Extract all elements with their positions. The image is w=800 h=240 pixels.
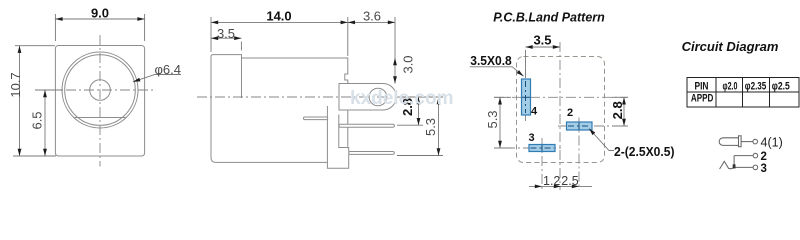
svg-text:2: 2 [761, 151, 767, 163]
circuit switch stem [733, 156, 735, 169]
pad2 center tick [578, 118, 580, 191]
svg-text:5.3: 5.3 [485, 110, 500, 128]
pad 4 [522, 79, 531, 115]
side view centerline [197, 96, 443, 98]
land pattern outline (dashed) [517, 57, 605, 163]
svg-text:5.3: 5.3 [423, 118, 438, 136]
svg-text:2.5: 2.5 [561, 174, 578, 188]
side view terminal foot [327, 106, 348, 168]
pad3 cross tick [541, 145, 543, 151]
front view body [55, 46, 144, 157]
dimension 5.3 (pattern) [485, 97, 512, 148]
front view chord [74, 117, 126, 119]
svg-text:4: 4 [531, 106, 538, 118]
svg-text:PIN: PIN [695, 80, 709, 92]
pad2 centerline [558, 125, 628, 127]
dimension 3.0 [393, 55, 415, 83]
dimension 5.3 (side) [397, 97, 443, 156]
pin table [687, 78, 799, 108]
label phi 6.4 with leader [132, 62, 181, 84]
front view center pin circle [90, 80, 111, 101]
svg-text:2: 2 [567, 107, 573, 119]
svg-text:kxdele.com: kxdele.com [350, 88, 454, 109]
dimension 6.5 [30, 90, 64, 156]
svg-text:P.C.B.Land Pattern: P.C.B.Land Pattern [493, 11, 605, 25]
svg-text:APPD: APPD [691, 93, 714, 105]
side view internal edge [241, 55, 243, 98]
pad2 cross tick [578, 123, 580, 130]
dimension 3.5 (pattern) [526, 33, 561, 79]
side view body [211, 55, 348, 163]
svg-text:3: 3 [761, 163, 767, 175]
dimension 14.0 [211, 9, 348, 57]
dimension 9.0 [55, 6, 144, 42]
side view pin 3 tail [304, 117, 328, 120]
pad3 centerline [505, 147, 561, 149]
pattern horizontal centerline [494, 96, 628, 98]
dimension 10.7 [8, 46, 56, 156]
svg-text:φ2.0: φ2.0 [723, 81, 738, 93]
label 2-(2.5X0.5) with leader [588, 127, 675, 159]
svg-text:14.0: 14.0 [266, 9, 291, 24]
circuit spring contact [720, 161, 735, 169]
pad3 center tick [541, 138, 543, 190]
terminal 2 circle [753, 153, 758, 158]
svg-text:9.0: 9.0 [91, 6, 109, 21]
front view outer circle [62, 52, 138, 128]
svg-text:3.5: 3.5 [217, 26, 235, 41]
front view inner ring [65, 55, 136, 126]
svg-text:φ2.5: φ2.5 [772, 81, 790, 93]
pad4 center tick [525, 112, 527, 121]
svg-text:6.5: 6.5 [30, 111, 45, 129]
side view pin 1 [339, 124, 394, 127]
svg-text:10.7: 10.7 [8, 72, 23, 97]
wire to terminal 3 [736, 166, 753, 168]
pattern vertical centerline [559, 42, 561, 190]
svg-text:3.6: 3.6 [363, 8, 381, 23]
side view pin 2 [349, 152, 395, 155]
pad4 cross tick [522, 96, 530, 98]
wire to terminal 2 [734, 155, 753, 157]
bottom chain dimensions 1.2 / 2.5 [529, 174, 592, 188]
label 3.5X0.8 with leader [470, 54, 525, 78]
svg-text:4(1): 4(1) [761, 135, 783, 149]
svg-text:3.5: 3.5 [533, 33, 551, 48]
circuit junction tick [733, 164, 736, 168]
svg-text:Circuit Diagram: Circuit Diagram [682, 39, 779, 54]
side view lug hole [369, 88, 387, 106]
dimension 2.8 (side) [397, 97, 443, 125]
pad 3 [529, 145, 555, 152]
terminal 3 circle [753, 165, 758, 170]
terminal 4 circle [753, 139, 758, 144]
svg-text:φ2.35: φ2.35 [745, 81, 767, 93]
svg-text:2.8: 2.8 [610, 101, 625, 119]
svg-text:3.5X0.8: 3.5X0.8 [470, 54, 512, 68]
pad 2 [567, 122, 593, 130]
svg-text:3: 3 [528, 132, 534, 144]
dimension 3.6 [348, 8, 395, 58]
svg-text:3.0: 3.0 [401, 55, 416, 73]
side view solder lug [339, 84, 396, 111]
svg-text:1.2: 1.2 [543, 174, 560, 188]
circuit center pin symbol [719, 136, 752, 147]
front view vertical centerline [99, 35, 101, 167]
front view horizontal centerline [48, 89, 153, 91]
dimension 2.8 (pattern) [610, 97, 628, 126]
svg-text:φ6.4: φ6.4 [155, 62, 182, 77]
dimension 3.5 (side) [211, 26, 241, 51]
svg-text:2-(2.5X0.5): 2-(2.5X0.5) [614, 145, 675, 159]
